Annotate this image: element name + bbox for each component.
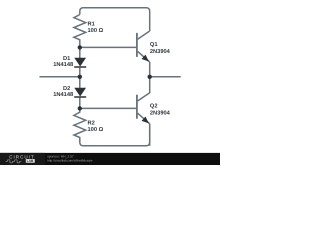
svg-text:R2: R2 bbox=[88, 121, 95, 127]
diode D1 bbox=[74, 47, 86, 76]
node D1-D2 input bbox=[78, 75, 82, 79]
svg-text:100 Ω: 100 Ω bbox=[88, 28, 104, 34]
svg-text:D2: D2 bbox=[63, 86, 70, 92]
resistor R2 bbox=[74, 108, 86, 142]
svg-text:2N3904: 2N3904 bbox=[150, 111, 171, 117]
transistor Q1 bbox=[137, 31, 150, 77]
svg-text:Q1: Q1 bbox=[150, 42, 158, 48]
svg-text:Q2: Q2 bbox=[150, 104, 158, 110]
footer logo panel bbox=[0, 153, 45, 165]
transistor Q2 bbox=[137, 93, 150, 146]
svg-text:100 Ω: 100 Ω bbox=[88, 127, 104, 133]
logo waveform bbox=[6, 160, 22, 163]
wire bottom rail bbox=[80, 124, 150, 146]
wire top rail bbox=[80, 8, 150, 31]
footer bar bbox=[0, 153, 220, 165]
wire base Q1 bbox=[80, 46, 136, 48]
wire input left bbox=[40, 76, 80, 78]
wire Q2 collector bbox=[149, 77, 151, 93]
logo LAB box bbox=[26, 159, 35, 163]
svg-text:2N3904: 2N3904 bbox=[150, 49, 171, 55]
resistor R1 bbox=[74, 15, 86, 48]
svg-text:1N4148: 1N4148 bbox=[53, 92, 73, 98]
diode D2 bbox=[74, 77, 86, 109]
svg-text:D1: D1 bbox=[63, 56, 70, 62]
svg-text:LAB: LAB bbox=[27, 159, 34, 163]
wire base Q2 bbox=[80, 107, 136, 109]
node D2-R2-Q2base bbox=[78, 106, 82, 110]
node output emitters bbox=[148, 75, 152, 79]
node R1-D1-Q1base bbox=[78, 45, 82, 49]
svg-text:R1: R1 bbox=[88, 21, 95, 27]
svg-text:http://circuitlab.com/c9bvd6dc: http://circuitlab.com/c9bvd6dcsqm bbox=[47, 159, 93, 163]
wire output bbox=[150, 76, 181, 78]
svg-text:1N4148: 1N4148 bbox=[53, 62, 73, 68]
